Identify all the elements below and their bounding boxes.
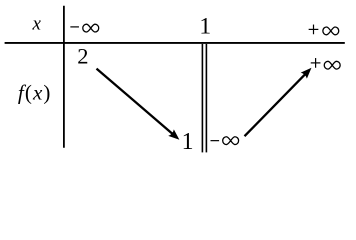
svg-text:2: 2 <box>77 43 88 68</box>
table frame vertical line <box>63 6 65 148</box>
svg-text:1: 1 <box>199 14 211 40</box>
plus-infinity top right <box>309 25 339 35</box>
decreasing arrow <box>97 69 183 143</box>
svg-text:f(x): f(x) <box>18 80 52 104</box>
increasing arrow <box>245 65 315 136</box>
table frame horizontal line <box>5 42 345 44</box>
svg-text:1: 1 <box>182 129 194 155</box>
minus-infinity bottom <box>211 137 239 145</box>
double bar discontinuity at x=1 <box>202 44 206 152</box>
svg-text:x: x <box>31 14 41 35</box>
plus-infinity right <box>311 58 340 69</box>
minus-infinity top left <box>70 24 98 32</box>
